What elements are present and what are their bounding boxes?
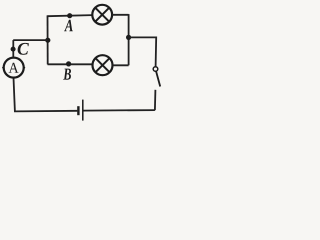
node B bbox=[66, 61, 71, 66]
junction dot right bbox=[126, 35, 131, 40]
background paper bbox=[0, 0, 165, 124]
wire: switch lower lead down to bottom wire bbox=[154, 90, 157, 110]
battery long plate (+) bbox=[82, 100, 84, 121]
wire: ammeter top lead up to left corner bbox=[12, 40, 14, 58]
label A bbox=[64, 20, 73, 31]
wire: junction to top-right corner and down to switch bbox=[129, 37, 157, 66]
switch blade bbox=[156, 71, 160, 86]
node A bbox=[67, 13, 72, 18]
label B bbox=[63, 69, 71, 80]
ammeter A1 bbox=[2, 58, 25, 78]
wire: left riser of branches (vertical at x=47.6) bbox=[47, 15, 49, 64]
wire: top branch left segment bbox=[48, 15, 93, 16]
label C bbox=[18, 43, 29, 55]
lamp L2 bbox=[93, 55, 113, 75]
node C bbox=[11, 47, 16, 52]
switch S pivot bbox=[153, 67, 158, 72]
wire: middle horizontal from left corner to junction bbox=[13, 39, 48, 41]
wire: bottom right segment to battery bbox=[83, 109, 155, 112]
junction dot left bbox=[45, 38, 50, 43]
wire: lamp L2 to right riser bbox=[113, 64, 129, 66]
battery short plate (-) bbox=[77, 106, 79, 115]
wire: bottom branch left segment bbox=[48, 63, 93, 65]
wire: right riser joining both branches bbox=[128, 14, 130, 65]
wire: bottom left segment from battery to left corner bbox=[14, 78, 78, 112]
wire: lamp L1 to right riser bbox=[112, 14, 129, 16]
lamp L1 bbox=[92, 5, 112, 25]
